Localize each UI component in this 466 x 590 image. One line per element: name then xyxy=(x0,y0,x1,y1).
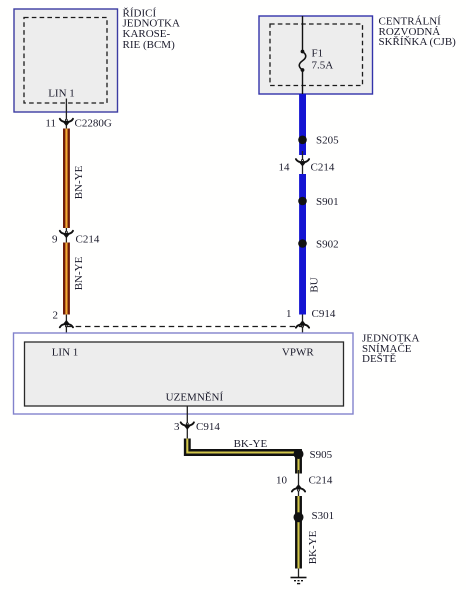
label S205 xyxy=(316,135,339,147)
svg-text:DEŠTĚ: DEŠTĚ xyxy=(362,353,397,365)
pin 9 xyxy=(52,234,58,246)
svg-text:9: 9 xyxy=(52,234,58,246)
value label BU xyxy=(308,277,320,292)
svg-text:LIN 1: LIN 1 xyxy=(52,346,79,358)
splice S301 xyxy=(294,512,304,522)
svg-text:S301: S301 xyxy=(312,510,335,522)
wire BN-YE segment 1 xyxy=(63,129,70,229)
svg-text:11: 11 xyxy=(45,118,56,130)
svg-text:VPWR: VPWR xyxy=(282,347,314,359)
svg-text:3: 3 xyxy=(174,421,180,433)
label C914 (pin 3) xyxy=(196,421,220,433)
connector C2280G xyxy=(60,119,73,126)
connector C214 (pin 14) xyxy=(296,159,309,166)
label C214 (pin 14) xyxy=(311,162,335,174)
svg-text:S205: S205 xyxy=(316,135,339,147)
splice S902 xyxy=(298,239,307,248)
ground xyxy=(291,578,307,584)
wire fuse to CJB bottom xyxy=(302,70,304,94)
pin label LIN 1 (rain sensor) xyxy=(52,346,79,358)
wire CJB top to fuse xyxy=(302,16,304,52)
label C914 (pin 1) xyxy=(312,308,336,320)
splice S901 xyxy=(298,197,307,206)
label rain sensor name xyxy=(362,333,419,365)
box CJB outer xyxy=(259,16,373,94)
svg-text:14: 14 xyxy=(279,162,291,174)
wire BN-YE segment 2 xyxy=(63,243,70,315)
wire BK-YE segment to ground xyxy=(295,496,302,569)
svg-text:BK-YE: BK-YE xyxy=(307,530,319,564)
box rain sensor outer xyxy=(14,333,354,414)
svg-text:BK-YE: BK-YE xyxy=(234,438,268,450)
box U1 BCM outer xyxy=(14,9,118,112)
box CJB inner dashed xyxy=(270,24,363,86)
svg-text:C914: C914 xyxy=(196,421,220,433)
pin 10 xyxy=(276,475,288,487)
fuse F1 xyxy=(299,50,306,72)
value label BN-YE (lower) xyxy=(73,256,85,290)
value label BK-YE (vertical) xyxy=(307,530,319,564)
svg-text:UZEMNĚNÍ: UZEMNĚNÍ xyxy=(166,392,224,404)
label BCM name xyxy=(123,7,180,51)
wire BU segment 2 xyxy=(299,174,306,315)
svg-text:BN-YE: BN-YE xyxy=(73,256,85,290)
svg-text:S902: S902 xyxy=(316,238,339,250)
svg-text:C2280G: C2280G xyxy=(75,118,112,130)
label C214 (pin 10) xyxy=(309,475,333,487)
value label BN-YE (upper) xyxy=(73,165,85,199)
wire BU segment 1 xyxy=(299,94,306,155)
splice S905 xyxy=(294,449,304,459)
label S902 xyxy=(316,238,339,250)
label CJB name xyxy=(379,16,457,48)
wire through connector C214 (pin 9) xyxy=(65,228,67,243)
connector C214 (pin 10) xyxy=(292,484,305,491)
svg-text:S901: S901 xyxy=(316,196,339,208)
wire through connector C214 (pin 14) xyxy=(302,151,304,174)
svg-text:F1: F1 xyxy=(312,47,324,59)
svg-text:BU: BU xyxy=(308,277,320,292)
svg-text:LIN 1: LIN 1 xyxy=(48,88,75,100)
label S301 xyxy=(312,510,335,522)
label C2280G xyxy=(75,118,112,130)
svg-text:C214: C214 xyxy=(76,234,100,246)
pin 11 xyxy=(45,118,56,130)
wire UZEMNENI to connector C914 (pin 3) xyxy=(186,406,188,439)
wire BK-YE elbow to S905 xyxy=(187,439,298,474)
svg-text:2: 2 xyxy=(53,309,59,321)
svg-text:C214: C214 xyxy=(311,162,335,174)
wire into rain sensor VPWR pin xyxy=(302,315,304,343)
splice S205 xyxy=(298,136,307,145)
pin 14 xyxy=(279,162,291,174)
svg-text:C914: C914 xyxy=(312,308,336,320)
svg-text:7.5A: 7.5A xyxy=(312,59,334,71)
connector C214 (pin 9) xyxy=(60,231,73,238)
pin 3 xyxy=(174,421,180,433)
box rain sensor inner xyxy=(25,342,344,406)
pin label LIN 1 (BCM) xyxy=(48,88,75,100)
pin 1 xyxy=(286,308,292,320)
value label F1 7.5A xyxy=(312,47,334,71)
wire into rain sensor LIN1 pin xyxy=(65,315,67,343)
svg-text:BN-YE: BN-YE xyxy=(73,165,85,199)
label C214 (pin 9) xyxy=(76,234,100,246)
label S905 xyxy=(310,449,333,461)
wire from BCM LIN1 to connector C2280G xyxy=(65,99,67,129)
pin 2 xyxy=(53,309,59,321)
svg-text:SKŘÍŇKA (CJB): SKŘÍŇKA (CJB) xyxy=(379,36,457,48)
value label BK-YE (horizontal) xyxy=(234,438,268,450)
pin label VPWR xyxy=(282,347,314,359)
dashed continuation line between pin2 and pin1 xyxy=(66,326,302,328)
wire to ground xyxy=(298,569,300,578)
svg-text:S905: S905 xyxy=(310,449,333,461)
svg-text:1: 1 xyxy=(286,308,292,320)
wire through connector C214 (pin 10) xyxy=(298,470,300,496)
label S901 xyxy=(316,196,339,208)
pin label UZEMNENI xyxy=(166,392,224,404)
connector C914 (pin 3) xyxy=(181,422,194,429)
svg-text:C214: C214 xyxy=(309,475,333,487)
box U1 BCM inner dashed xyxy=(24,18,107,104)
svg-text:10: 10 xyxy=(276,475,288,487)
svg-text:RIE (BCM): RIE (BCM) xyxy=(123,39,176,51)
connector at pin 2 xyxy=(60,320,73,327)
connector at pin 1 xyxy=(296,320,309,327)
